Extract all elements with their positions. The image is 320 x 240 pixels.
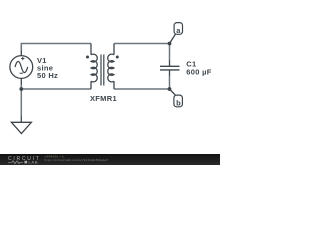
wire primary top — [21, 44, 91, 51]
wire secondary top — [114, 44, 170, 61]
svg-text:b: b — [176, 98, 181, 107]
transformer lead stubs — [91, 44, 114, 90]
capacitor C1 — [160, 66, 180, 70]
primary phase dot — [86, 56, 89, 59]
node b junction — [168, 87, 172, 91]
voltage source V1 — [10, 56, 33, 79]
node junction at source bottom — [19, 87, 23, 91]
svg-text:600 µF: 600 µF — [186, 68, 211, 77]
wire secondary bottom — [114, 75, 170, 89]
core — [100, 55, 102, 86]
capacitor lead stubs — [169, 61, 171, 76]
wire ground stem — [20, 89, 22, 117]
secondary winding — [108, 54, 114, 82]
terminal a — [170, 23, 183, 44]
svg-text:http://circuitlab.com/c/343ddc: http://circuitlab.com/c/343ddc59a4a7 — [45, 158, 109, 162]
CircuitLab logo — [8, 156, 41, 165]
ground — [11, 117, 31, 134]
svg-text:XFMR1: XFMR1 — [90, 94, 117, 103]
terminal b — [170, 89, 183, 107]
secondary phase dot — [116, 56, 119, 59]
svg-text:LAB: LAB — [29, 161, 39, 165]
svg-text:50 Hz: 50 Hz — [37, 71, 58, 80]
primary winding — [91, 54, 97, 82]
source lead stubs — [20, 50, 22, 84]
wire primary bottom — [21, 84, 91, 89]
transformer XFMR1 — [86, 54, 119, 85]
svg-text:a: a — [176, 26, 181, 35]
node a junction — [168, 42, 172, 46]
